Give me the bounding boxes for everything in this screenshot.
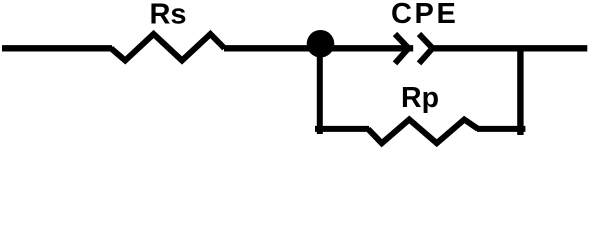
svg-text:Rp: Rp [401,82,439,114]
wire: right vertical riser [517,46,523,135]
CPE element: second chevron [419,34,433,63]
wire: CPE to right edge [430,45,587,51]
svg-text:Rs: Rs [149,0,186,31]
resistor Rs [111,34,225,61]
wire: left vertical drop from node [317,43,323,134]
node junction dot [307,30,335,58]
wire: bottom lead left of Rp [315,126,369,132]
wire: left lead into Rs [2,45,112,51]
svg-text:CPE: CPE [391,0,458,30]
resistor Rp [368,120,478,144]
CPE element: first chevron [395,34,409,63]
wire: Rs to node and into CPE [224,45,413,51]
wire: bottom lead right of Rp [477,126,525,132]
